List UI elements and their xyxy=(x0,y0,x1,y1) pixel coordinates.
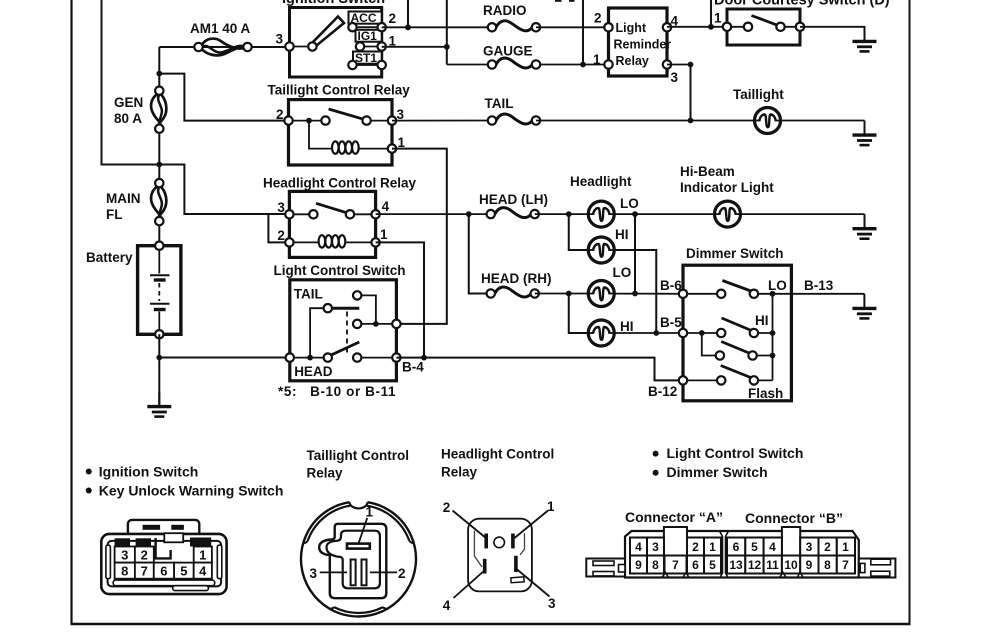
svg-text:B-12: B-12 xyxy=(648,384,677,399)
svg-text:LO: LO xyxy=(620,196,639,211)
svg-text:3: 3 xyxy=(806,540,813,554)
wire: headlight relay pin 1 down to HEAD row xyxy=(376,242,424,357)
wire: vertical from top through IG1 tee to GAUGE xyxy=(446,0,448,65)
wire: GAUGE row xyxy=(447,64,492,66)
svg-text:ST1: ST1 xyxy=(355,51,377,65)
svg-text:2: 2 xyxy=(389,11,397,26)
wire: taillight relay pin 1 to light control switch TAIL xyxy=(392,149,447,324)
headlight LH HI bulb xyxy=(588,237,614,263)
wire: AM1 feed row xyxy=(159,46,289,48)
hi-beam indicator bulb xyxy=(715,201,741,227)
wire: relay pin 4 to door courtesy switch xyxy=(667,26,727,28)
bullet list left: Key Unlock Warning Switch xyxy=(86,488,92,494)
svg-text:11: 11 xyxy=(766,558,779,572)
svg-text:7: 7 xyxy=(672,558,679,572)
wire: TAIL fuse to taillight and ground xyxy=(536,120,755,122)
svg-text:1: 1 xyxy=(714,11,722,26)
svg-text:1: 1 xyxy=(199,548,206,563)
svg-text:Reminder: Reminder xyxy=(614,38,672,52)
svg-text:RADIO: RADIO xyxy=(483,3,527,18)
svg-text:6: 6 xyxy=(692,558,699,572)
svg-text:3: 3 xyxy=(121,548,128,563)
svg-text:9: 9 xyxy=(635,558,642,572)
svg-text:10: 10 xyxy=(784,558,798,572)
fuse HEAD (LH) xyxy=(487,208,539,219)
cut-off label fragments above RADIO fuse xyxy=(555,0,562,2)
svg-text:6: 6 xyxy=(733,540,740,554)
svg-text:TAIL: TAIL xyxy=(294,287,323,302)
fusible link AM1 40 A xyxy=(194,39,251,56)
connector A and B body xyxy=(586,531,895,578)
svg-text:3: 3 xyxy=(671,70,679,85)
bullet list right: Light Control Switch xyxy=(653,451,659,457)
battery xyxy=(138,242,181,339)
svg-text:Dimmer Switch: Dimmer Switch xyxy=(667,464,768,480)
headlight LH LO bulb xyxy=(588,201,614,227)
svg-text:Key Unlock Warning Switch: Key Unlock Warning Switch xyxy=(99,483,284,499)
svg-text:13: 13 xyxy=(729,558,743,572)
svg-text:Light Control Switch: Light Control Switch xyxy=(274,263,406,278)
fuse TAIL xyxy=(488,114,540,125)
svg-text:5: 5 xyxy=(180,564,187,579)
svg-text:*5: B-10 or B-11: *5: B-10 or B-11 xyxy=(278,384,396,399)
svg-text:7: 7 xyxy=(842,558,849,572)
svg-text:1: 1 xyxy=(547,499,555,514)
svg-text:B-6: B-6 xyxy=(660,278,682,293)
wire: dimmer LO output to ground xyxy=(791,293,864,295)
svg-text:5: 5 xyxy=(751,540,758,554)
headlight control relay connector xyxy=(453,511,550,599)
fuse RADIO xyxy=(488,21,540,32)
wire: vertical from top to GAUGE junction xyxy=(582,0,584,65)
headlight control relay xyxy=(285,191,380,257)
wire: taillight relay pin 3 to TAIL fuse xyxy=(392,120,492,122)
light control switch xyxy=(286,280,401,381)
wire: LO tie down to RH LO row xyxy=(634,214,636,293)
wire: RH HI branch xyxy=(569,294,589,334)
svg-text:FL: FL xyxy=(106,207,123,222)
wire: relay pin 3 to tail row xyxy=(667,64,691,66)
svg-text:1: 1 xyxy=(366,505,374,520)
wire: main battery rail xyxy=(158,47,160,91)
headlight RH LO bulb xyxy=(588,281,614,307)
ignition switch xyxy=(285,8,386,78)
svg-text:80 A: 80 A xyxy=(114,111,142,126)
svg-text:2: 2 xyxy=(277,228,285,243)
wire: RADIO fuse to relay pin 2 xyxy=(536,26,609,28)
wire: vertical up from ACC wire xyxy=(407,0,409,27)
svg-text:Connector “B”: Connector “B” xyxy=(745,510,843,526)
svg-text:TAIL: TAIL xyxy=(485,96,514,111)
wire: RH HI row to dimmer B-5 xyxy=(614,332,683,334)
svg-text:12: 12 xyxy=(748,558,762,572)
ground: headlight LO row xyxy=(853,214,877,239)
bullet list left: Ignition Switch xyxy=(86,469,92,475)
svg-text:HEAD (LH): HEAD (LH) xyxy=(479,192,548,207)
bullet list right: Dimmer Switch xyxy=(653,470,659,476)
svg-text:Ignition Switch: Ignition Switch xyxy=(282,0,385,7)
ground: battery xyxy=(147,392,171,417)
svg-text:B-13: B-13 xyxy=(804,278,834,293)
svg-text:HI: HI xyxy=(615,227,629,242)
svg-text:Taillight: Taillight xyxy=(733,87,784,102)
svg-text:1: 1 xyxy=(709,540,716,554)
svg-text:3: 3 xyxy=(652,540,659,554)
wire: battery to light control switch HEAD xyxy=(159,357,289,359)
svg-text:2: 2 xyxy=(824,540,831,554)
wire: branch to taillight control relay pin 2 xyxy=(159,74,288,121)
svg-text:Battery: Battery xyxy=(86,250,133,265)
svg-text:2: 2 xyxy=(276,107,284,122)
taillight control relay connector xyxy=(301,502,416,616)
svg-text:AM1 40 A: AM1 40 A xyxy=(190,21,251,36)
wire: branch into headlight relay pin 2 xyxy=(268,214,289,242)
svg-text:MAIN: MAIN xyxy=(106,191,141,206)
svg-text:IG1: IG1 xyxy=(358,29,378,43)
svg-text:Headlight: Headlight xyxy=(570,174,632,189)
svg-text:5: 5 xyxy=(709,558,716,572)
svg-text:Door Courtesy Switch (D): Door Courtesy Switch (D) xyxy=(714,0,890,9)
svg-text:Taillight Control Relay: Taillight Control Relay xyxy=(268,83,411,98)
svg-text:Relay: Relay xyxy=(307,466,344,481)
svg-text:Flash: Flash xyxy=(748,386,783,401)
svg-text:Connector “A”: Connector “A” xyxy=(625,509,723,525)
fusible link MAIN FL xyxy=(151,179,166,225)
svg-text:GAUGE: GAUGE xyxy=(483,44,533,59)
svg-text:Light: Light xyxy=(616,21,647,35)
svg-text:1: 1 xyxy=(380,227,388,242)
connector B cells xyxy=(727,527,855,574)
svg-text:2: 2 xyxy=(594,11,602,26)
wire: branch to headlight control relay pin 3 xyxy=(159,165,289,215)
wire: IG1 to tee xyxy=(382,46,447,48)
svg-text:6: 6 xyxy=(160,564,167,579)
door courtesy switch xyxy=(723,9,804,45)
light reminder relay xyxy=(604,8,671,76)
svg-text:B-5: B-5 xyxy=(660,315,682,330)
wire: ACC to RADIO fuse xyxy=(382,26,492,28)
svg-text:4: 4 xyxy=(443,598,451,613)
connector A cells xyxy=(630,527,721,574)
wire: LH HI output down to B-5 row xyxy=(614,250,656,333)
ground: door courtesy switch xyxy=(853,27,877,52)
fuse HEAD (RH) xyxy=(487,287,539,298)
taillight control relay xyxy=(284,100,396,165)
svg-text:8: 8 xyxy=(652,558,659,572)
svg-text:Hi-Beam: Hi-Beam xyxy=(680,164,735,179)
wire: LH row to ground xyxy=(535,213,589,215)
svg-text:2: 2 xyxy=(141,548,148,563)
svg-text:HEAD: HEAD xyxy=(294,364,333,379)
svg-text:4: 4 xyxy=(635,540,642,554)
svg-text:9: 9 xyxy=(806,558,813,572)
fusible link GEN 80 A xyxy=(151,87,166,133)
svg-text:Relay: Relay xyxy=(616,54,649,68)
svg-text:HEAD (RH): HEAD (RH) xyxy=(481,271,552,286)
ground: dimmer B-13 xyxy=(852,294,876,319)
svg-text:3: 3 xyxy=(310,566,318,581)
wire: door courtesy switch to ground xyxy=(800,26,865,28)
svg-text:8: 8 xyxy=(121,564,128,579)
svg-text:HI: HI xyxy=(755,313,769,328)
wire: vertical up from door courtesy feed xyxy=(710,0,712,27)
svg-text:3: 3 xyxy=(548,596,556,611)
svg-text:Headlight Control: Headlight Control xyxy=(441,447,554,462)
headlight RH HI bulb xyxy=(588,320,614,346)
svg-text:B-4: B-4 xyxy=(402,360,424,375)
wire: battery negative to ground xyxy=(158,334,160,406)
svg-text:1: 1 xyxy=(842,540,849,554)
svg-text:2: 2 xyxy=(443,500,451,515)
wire: HEAD row to dimmer B-12 xyxy=(396,358,683,381)
svg-text:Taillight Control: Taillight Control xyxy=(307,448,409,463)
wire: headlight relay pin 4 to HEAD LH fuse xyxy=(376,213,491,215)
svg-text:3: 3 xyxy=(276,32,284,47)
taillight bulb xyxy=(755,108,781,134)
ignition switch connector xyxy=(101,520,226,594)
wire: RH row to dimmer B-6 xyxy=(535,293,589,295)
svg-text:GEN: GEN xyxy=(114,95,143,110)
svg-text:7: 7 xyxy=(141,564,148,579)
svg-text:4: 4 xyxy=(199,564,207,579)
svg-text:1: 1 xyxy=(593,52,601,67)
page border frame xyxy=(70,0,72,624)
svg-text:Ignition Switch: Ignition Switch xyxy=(99,464,199,480)
dimmer switch xyxy=(679,265,792,401)
svg-text:Indicator Light: Indicator Light xyxy=(680,180,774,195)
svg-text:4: 4 xyxy=(769,540,776,554)
connector body notches xyxy=(662,531,803,578)
svg-text:3: 3 xyxy=(277,200,285,215)
svg-text:Dimmer Switch: Dimmer Switch xyxy=(686,246,784,261)
svg-text:Light Control Switch: Light Control Switch xyxy=(667,445,804,461)
wire: drop to HEAD RH row xyxy=(469,214,491,293)
wire: feed from top-left to junction xyxy=(102,0,160,165)
ground: taillight xyxy=(853,121,877,146)
svg-text:Relay: Relay xyxy=(441,465,478,480)
svg-text:LO: LO xyxy=(768,278,787,293)
svg-text:Headlight Control Relay: Headlight Control Relay xyxy=(263,176,417,191)
svg-text:HI: HI xyxy=(620,319,634,334)
svg-text:LO: LO xyxy=(613,265,632,280)
svg-text:2: 2 xyxy=(692,540,699,554)
wire: LH HI branch xyxy=(569,214,589,250)
fuse GAUGE xyxy=(488,58,540,69)
svg-text:2: 2 xyxy=(398,566,406,581)
svg-text:8: 8 xyxy=(824,558,831,572)
svg-text:4: 4 xyxy=(382,199,390,214)
